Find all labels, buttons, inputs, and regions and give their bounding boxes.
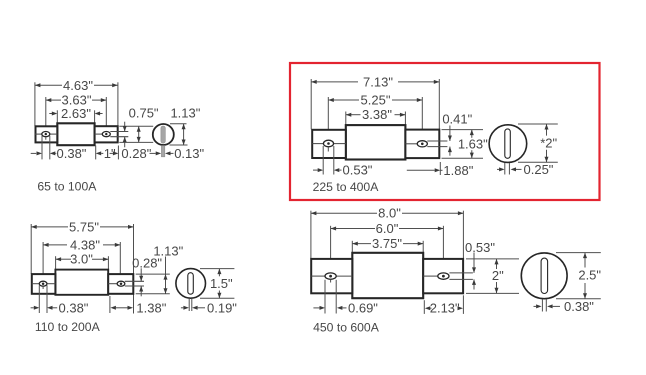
svg-text:1.38": 1.38" (136, 300, 166, 315)
svg-text:4.63": 4.63" (63, 78, 93, 93)
svg-text:1.5": 1.5" (210, 276, 233, 291)
svg-text:7.13": 7.13" (363, 74, 393, 89)
svg-text:450 to 600A: 450 to 600A (313, 320, 380, 334)
svg-text:0.38": 0.38" (59, 300, 89, 315)
svg-text:2.63": 2.63" (61, 106, 91, 121)
svg-text:1.63": 1.63" (458, 136, 488, 151)
svg-text:4.38": 4.38" (70, 237, 100, 252)
svg-text:0.25": 0.25" (524, 162, 554, 177)
svg-text:2": 2" (492, 268, 504, 283)
svg-text:0.19": 0.19" (207, 300, 237, 315)
svg-text:0.53": 0.53" (465, 240, 495, 255)
svg-text:65 to 100A: 65 to 100A (37, 179, 97, 193)
svg-text:5.25": 5.25" (361, 93, 391, 108)
svg-text:3.75": 3.75" (372, 236, 402, 251)
svg-text:1.13": 1.13" (170, 106, 200, 121)
svg-text:0.38": 0.38" (57, 146, 87, 161)
svg-text:8.0": 8.0" (378, 206, 401, 221)
svg-text:0.13": 0.13" (174, 146, 204, 161)
svg-text:0.75": 0.75" (129, 106, 159, 121)
svg-text:5.75": 5.75" (69, 219, 99, 234)
svg-text:2.5": 2.5" (578, 268, 601, 283)
svg-text:3.38": 3.38" (362, 107, 392, 122)
svg-text:0.41": 0.41" (442, 111, 472, 126)
svg-text:0.69": 0.69" (348, 300, 378, 315)
svg-text:0.28": 0.28" (132, 255, 162, 270)
svg-text:2.13": 2.13" (430, 301, 460, 316)
svg-text:6.0": 6.0" (376, 221, 399, 236)
svg-text:3.0": 3.0" (70, 252, 93, 267)
svg-text:0.53": 0.53" (343, 163, 373, 178)
svg-text:1.88": 1.88" (443, 163, 473, 178)
svg-text:0.38": 0.38" (564, 299, 594, 314)
svg-text:225 to 400A: 225 to 400A (313, 180, 380, 194)
svg-text:*2": *2" (540, 135, 557, 150)
svg-text:0.28": 0.28" (121, 146, 151, 161)
svg-text:110 to 200A: 110 to 200A (35, 320, 101, 334)
